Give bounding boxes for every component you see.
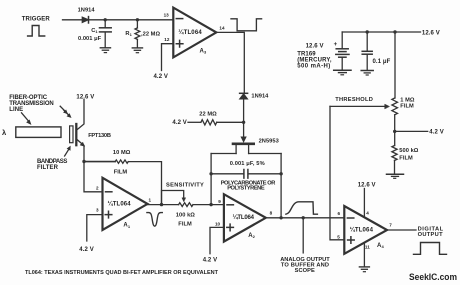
svg-text:4.2 V: 4.2 V: [429, 130, 444, 136]
svg-text:OUTPUT: OUTPUT: [418, 232, 443, 238]
svg-text:4.2 V: 4.2 V: [172, 120, 187, 126]
svg-text:13: 13: [164, 12, 170, 17]
svg-text:FILTER: FILTER: [37, 165, 59, 171]
svg-text:1: 1: [149, 198, 152, 203]
svg-text:500 kΩ: 500 kΩ: [399, 148, 418, 154]
svg-text:SCOPE: SCOPE: [295, 268, 315, 274]
svg-text:FPT130B: FPT130B: [88, 133, 111, 139]
svg-text:0.001 μF: 0.001 μF: [78, 36, 102, 42]
svg-text:2: 2: [96, 185, 99, 190]
svg-text:LINE: LINE: [9, 107, 23, 113]
svg-text:FILM: FILM: [399, 155, 413, 161]
svg-text:TRIGGER: TRIGGER: [22, 16, 51, 22]
svg-text:11: 11: [365, 245, 370, 250]
svg-text:12.6 V: 12.6 V: [76, 95, 94, 101]
svg-text:12.6 V: 12.6 V: [306, 44, 324, 50]
svg-text:1N914: 1N914: [78, 8, 96, 14]
svg-text:A1: A1: [123, 223, 130, 229]
svg-text:A4: A4: [377, 243, 384, 249]
svg-text:8: 8: [270, 211, 273, 216]
svg-text:A2: A2: [248, 233, 255, 239]
svg-text:C1: C1: [91, 28, 98, 34]
svg-text:22 MΩ: 22 MΩ: [199, 112, 217, 118]
svg-text:0.001 μF, 5%: 0.001 μF, 5%: [230, 161, 265, 167]
svg-text:7: 7: [389, 223, 392, 228]
svg-text:¼TL064: ¼TL064: [233, 214, 255, 221]
svg-text:¼TL064: ¼TL064: [178, 29, 202, 36]
svg-text:¼TL064: ¼TL064: [108, 201, 132, 208]
svg-text:FILM: FILM: [178, 221, 192, 227]
svg-text:3: 3: [96, 208, 99, 213]
svg-text:1N914: 1N914: [251, 94, 269, 100]
svg-text:500 mA-H): 500 mA-H): [297, 63, 330, 69]
svg-text:12: 12: [164, 37, 170, 42]
svg-text:SeekIC.com: SeekIC.com: [409, 272, 457, 282]
svg-text:4.2 V: 4.2 V: [79, 247, 94, 253]
svg-text:R1: R1: [125, 31, 132, 37]
svg-text:SENSITIVITY: SENSITIVITY: [166, 183, 204, 189]
svg-text:THRESHOLD: THRESHOLD: [335, 97, 373, 103]
svg-text:100 kΩ: 100 kΩ: [176, 213, 195, 219]
svg-text:TL064: TEXAS INSTRUMENTS QUAD: TL064: TEXAS INSTRUMENTS QUAD BI-FET AMP…: [25, 270, 218, 276]
svg-text:4.2 V: 4.2 V: [203, 257, 218, 263]
svg-text:10: 10: [215, 221, 221, 226]
svg-text:12.6 V: 12.6 V: [422, 30, 440, 36]
svg-text:4: 4: [366, 210, 369, 215]
svg-text:12.6 V: 12.6 V: [358, 182, 376, 188]
svg-text:A3: A3: [200, 48, 207, 54]
svg-text:0.1 μF: 0.1 μF: [373, 59, 391, 65]
svg-text:2N5953: 2N5953: [259, 139, 279, 145]
svg-text:,22 MΩ: ,22 MΩ: [141, 31, 160, 37]
svg-text:5: 5: [337, 234, 340, 239]
svg-text:POLYSTYRENE: POLYSTYRENE: [227, 186, 265, 192]
svg-text:¼TL064: ¼TL064: [350, 227, 374, 234]
svg-text:6: 6: [338, 211, 341, 216]
svg-text:FILM: FILM: [400, 103, 414, 109]
svg-text:+: +: [334, 42, 338, 48]
svg-text:10 MΩ: 10 MΩ: [113, 150, 131, 156]
svg-text:14: 14: [219, 26, 225, 31]
svg-text:4.2 V: 4.2 V: [154, 74, 169, 80]
svg-text:9: 9: [218, 199, 221, 204]
svg-text:FILM: FILM: [114, 170, 128, 176]
